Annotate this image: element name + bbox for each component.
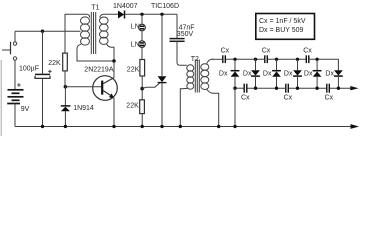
wire SCR cathode to ground rail (161, 83, 163, 127)
svg-text:Cx = 1nF / 5kV: Cx = 1nF / 5kV (259, 18, 306, 25)
lamp LN2 neon (139, 41, 146, 48)
battery B1 9V (7, 90, 23, 104)
wire HV top rail segment 1 (212, 58, 222, 60)
info box Cx Dx values (256, 14, 315, 40)
node junction dot D2 ground (64, 125, 67, 128)
svg-text:Cx: Cx (303, 47, 312, 54)
wire top-left rail battery+ to T1 tap (15, 30, 81, 32)
svg-text:22K: 22K (127, 67, 140, 74)
wire emitter to ground (113, 98, 115, 127)
svg-text:Dx: Dx (263, 70, 272, 77)
node junction dot C1 ground (41, 125, 44, 128)
wire switch drop from rail (14, 31, 16, 42)
wire mid rail segment 2 (247, 87, 285, 89)
wire D1 to SCR anode rail (125, 13, 178, 15)
wire HV top rail segment 4 with corner (309, 59, 338, 70)
wire anode rail corner to C2 (176, 14, 178, 38)
node dot mid rail col5 (315, 87, 318, 90)
svg-text:Cx: Cx (325, 94, 334, 101)
node junction dot T2 primary ground (179, 125, 182, 128)
wire T2 primary bottom to ground rail (180, 88, 187, 126)
wire gate to SCR (142, 83, 159, 88)
diode Dx2 down (251, 59, 260, 88)
wire base node to ground via D2 lead (64, 87, 66, 106)
diode Dx5 up (313, 59, 322, 88)
node base junction dot (64, 85, 68, 89)
node dot top rail col5 (315, 58, 318, 61)
svg-text:LN: LN (131, 23, 140, 30)
wire C1 bottom lead (42, 78, 44, 126)
capacitor Cx5 mid rail (286, 84, 289, 93)
svg-text:22K: 22K (126, 102, 139, 109)
battery + mark (17, 83, 20, 86)
thyristor U1 TIC106D (158, 14, 167, 82)
node junction dot emitter ground (112, 125, 115, 128)
wire R1 to base node (64, 71, 66, 87)
wire lamp chain upper lead (141, 14, 143, 24)
node junction dot at C1 top tap (41, 30, 44, 33)
wire T1 boost bottom to collector node (107, 44, 115, 61)
wire T2 secondary top to HV rail (207, 59, 214, 64)
wire T1 primary bottom to collector node (77, 44, 114, 61)
wire mid rail segment 3 (289, 87, 326, 89)
node junction dot SCR ground (160, 125, 163, 128)
output arrow bottom terminal (351, 124, 360, 129)
svg-text:Dx: Dx (219, 70, 228, 77)
output arrow HV terminal (350, 86, 358, 90)
wire D2 to ground rail (64, 111, 66, 126)
svg-text:Cx: Cx (284, 94, 293, 101)
resistor R1 22K (63, 53, 68, 71)
resistor R3 22K (140, 100, 145, 114)
capacitor Cx4 mid rail (244, 84, 247, 93)
diode D1 1N4007 (118, 11, 125, 19)
wire HV top rail segment 2 (226, 58, 264, 60)
wire bottom ground rail (15, 126, 352, 128)
wire C2 to T2 primary top (177, 41, 187, 65)
node junction dot R3 ground (141, 125, 144, 128)
wire mid rail segment 4 (330, 87, 352, 89)
transformer T2 (187, 60, 209, 93)
node junction dot lamp chain top (140, 13, 143, 16)
node junction dot SCR anode (160, 13, 163, 16)
wire HV top rail segment 3 (268, 58, 306, 60)
wire scan edge artifact left (0, 60, 2, 136)
svg-text:Dx = BUY 509: Dx = BUY 509 (259, 27, 304, 34)
svg-text:100µF: 100µF (19, 66, 39, 73)
svg-text:1N4007: 1N4007 (113, 3, 138, 10)
node junction dot T2 secondary ground (217, 125, 220, 128)
switch S1 pushbutton (2, 42, 17, 60)
node dot top rail col3 (275, 58, 278, 61)
wire switch to battery (14, 60, 16, 89)
diode Dx4 down (293, 59, 302, 88)
wire battery to ground rail (14, 104, 16, 127)
wire R3 to ground rail (141, 114, 143, 127)
svg-text:TIC106D: TIC106D (151, 3, 179, 10)
wire collector (113, 61, 115, 78)
diode Dx1 up (231, 59, 240, 88)
svg-text:Cx: Cx (221, 47, 230, 54)
diode Dx3 up (272, 59, 281, 88)
svg-text:22K: 22K (48, 60, 61, 67)
capacitor C2 47nF 350V (170, 39, 185, 42)
diode Dx6 down (334, 70, 343, 88)
wire col1 mid to ground rail (234, 88, 236, 126)
resistor R2 22K (140, 60, 145, 77)
transformer T1 (81, 12, 109, 54)
diode D2 1N914 (61, 106, 71, 111)
svg-text:T1: T1 (91, 5, 99, 12)
node dot top rail col1 (233, 58, 236, 61)
capacitor C1 100uF electrolytic (35, 70, 52, 79)
svg-text:350V: 350V (177, 31, 194, 38)
node dot mid rail col1 (233, 87, 236, 90)
node dot top rail col4 (296, 58, 299, 61)
wire T1 boost top to diode D1 (100, 14, 118, 17)
node collector junction dot (112, 59, 116, 63)
node dot mid rail col6 (337, 87, 340, 90)
wire mid rail segment 1 (235, 87, 244, 89)
svg-text:Dx: Dx (325, 70, 334, 77)
node gate junction dot (140, 87, 144, 91)
svg-text:LN: LN (131, 42, 140, 49)
svg-text:2N2219A: 2N2219A (84, 66, 114, 73)
node dot mid rail col3 (275, 87, 278, 90)
svg-text:Cx: Cx (241, 94, 250, 101)
wire C1 top lead (42, 31, 44, 74)
wire base (65, 86, 101, 88)
node dot mid rail col4 (296, 87, 299, 90)
wire top feedback rail (65, 14, 90, 53)
svg-text:Dx: Dx (304, 70, 313, 77)
wire between lamps (141, 31, 143, 41)
capacitor Cx6 mid rail (327, 84, 330, 93)
transistor Q1 2N2219A (93, 76, 118, 101)
node junction dot col1 ground (233, 125, 236, 128)
svg-text:Dx: Dx (243, 70, 252, 77)
capacitor Cx3 top rail (306, 55, 309, 63)
capacitor Cx2 top rail (265, 55, 268, 63)
svg-text:1N914: 1N914 (73, 105, 94, 112)
lamp LN1 neon (139, 24, 146, 31)
wire R2 to gate node (141, 76, 143, 100)
capacitor Cx1 top rail (223, 55, 226, 63)
wire LN2 to R2 (141, 47, 143, 59)
svg-text:9V: 9V (21, 106, 30, 113)
node dot top rail col2 (254, 58, 257, 61)
node dot mid rail col2 (254, 87, 257, 90)
svg-text:Dx: Dx (284, 70, 293, 77)
svg-text:T2: T2 (191, 56, 199, 63)
wire T2 secondary bottom to ground rail (207, 89, 219, 127)
svg-text:Cx: Cx (262, 47, 271, 54)
